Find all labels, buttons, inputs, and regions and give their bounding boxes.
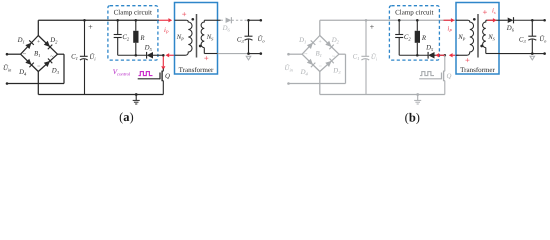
svg-text:+: + (319, 39, 322, 45)
svg-text:~: ~ (50, 54, 53, 60)
svg-text:+: + (370, 22, 375, 31)
svg-text:Transformer: Transformer (179, 66, 214, 74)
svg-text:Transformer: Transformer (460, 66, 495, 74)
svg-text:~: ~ (304, 52, 307, 58)
svg-text:~: ~ (23, 52, 26, 58)
svg-text:+: + (182, 9, 187, 19)
svg-text:(b): (b) (405, 111, 420, 125)
svg-text:~: ~ (332, 54, 335, 60)
svg-text:(a): (a) (119, 110, 134, 124)
svg-text:Clamp circuit: Clamp circuit (395, 8, 433, 16)
svg-text:Q: Q (446, 73, 451, 80)
svg-text:R: R (421, 35, 427, 42)
svg-text:R: R (139, 35, 145, 42)
svg-text:+: + (482, 7, 487, 17)
svg-text:Q: Q (165, 73, 170, 80)
svg-text:+: + (88, 22, 93, 31)
svg-text:+: + (465, 55, 470, 65)
svg-text:Clamp circuit: Clamp circuit (114, 8, 152, 16)
svg-text:+: + (204, 53, 209, 63)
svg-text:+: + (37, 39, 40, 45)
